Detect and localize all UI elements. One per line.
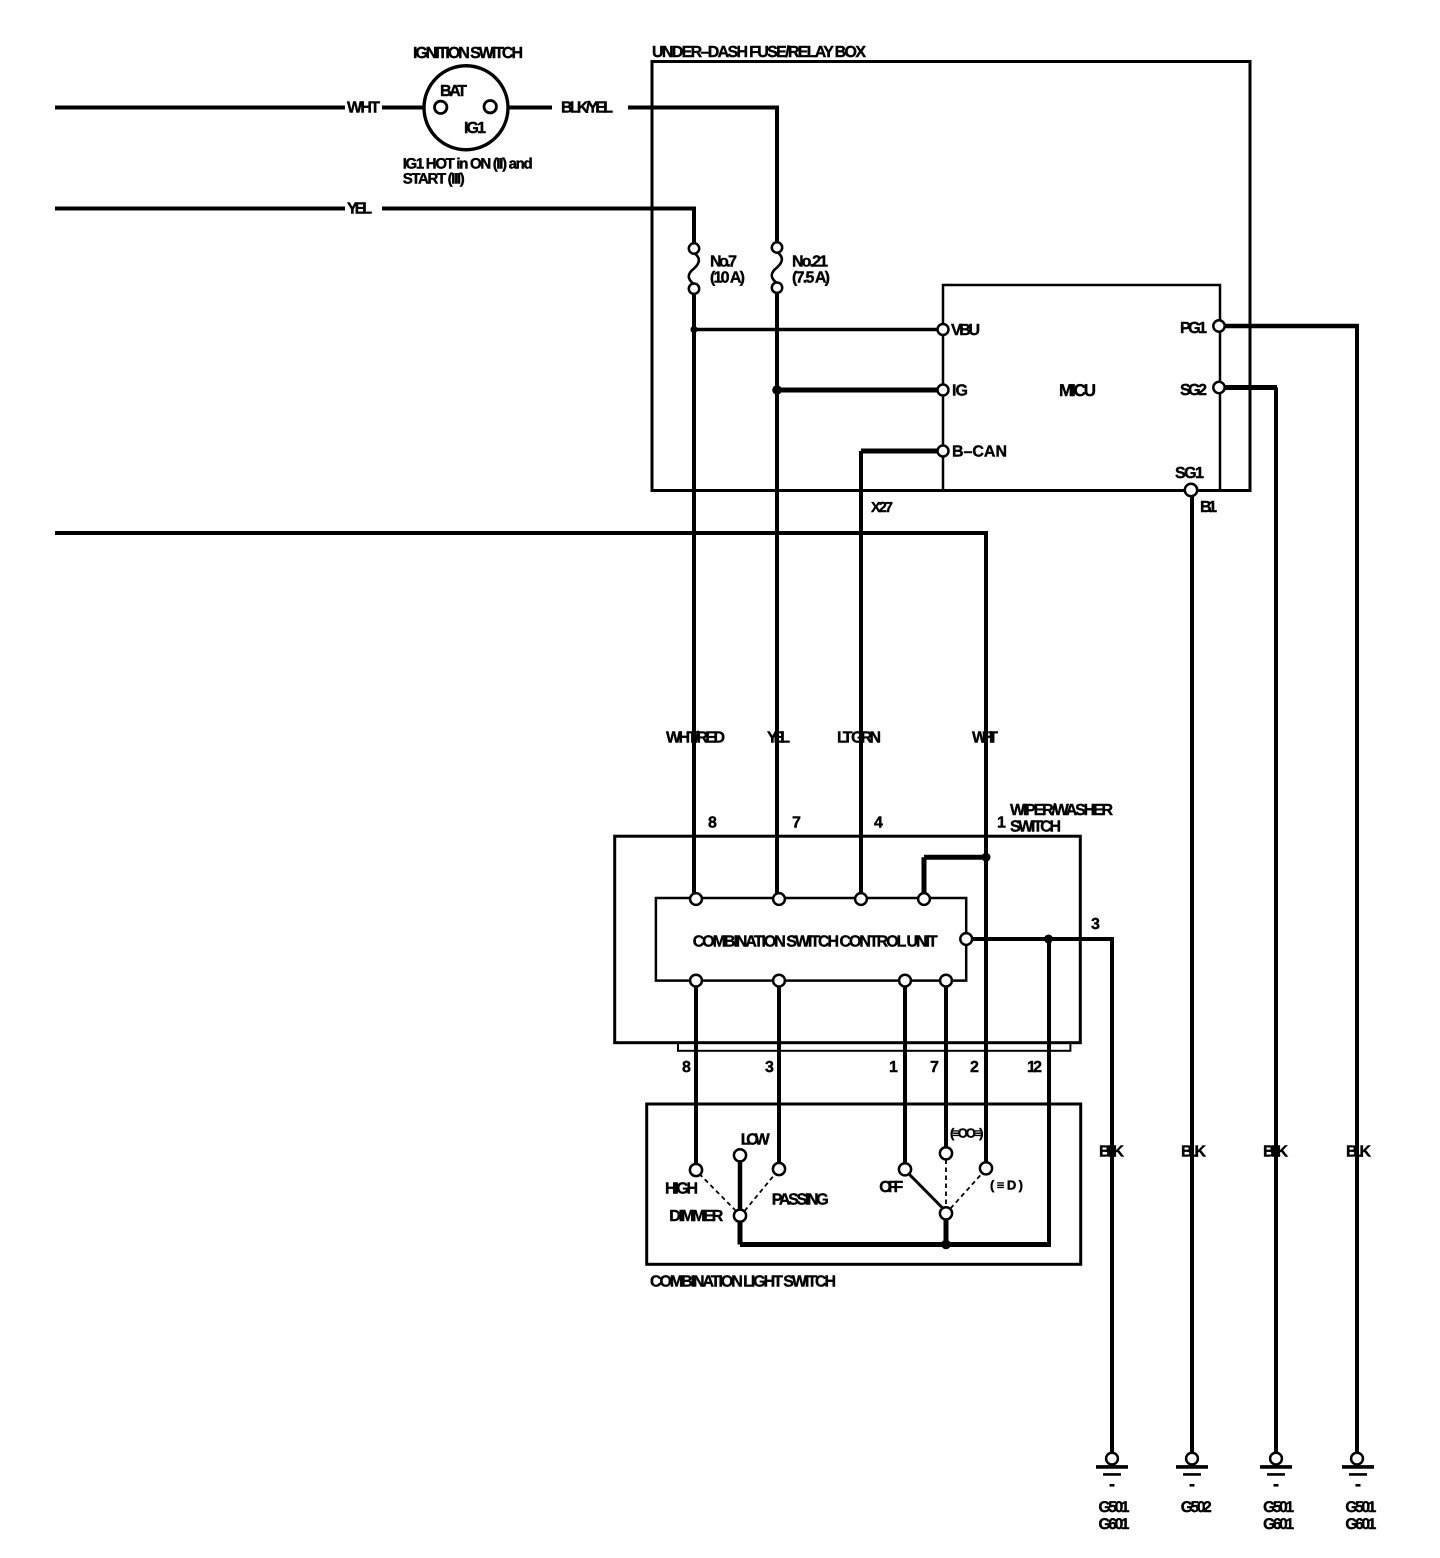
svg-text:PG1: PG1 [1180, 320, 1207, 337]
svg-text:(≡OO≡): (≡OO≡) [950, 1126, 984, 1141]
svg-text:WHT: WHT [972, 730, 998, 747]
svg-text:SWITCH: SWITCH [1010, 819, 1061, 836]
svg-text:BLK: BLK [1181, 1144, 1206, 1161]
svg-text:7: 7 [792, 815, 801, 832]
svg-text:SG1: SG1 [1175, 465, 1204, 482]
svg-text:YEL: YEL [767, 730, 790, 747]
svg-text:VBU: VBU [951, 322, 980, 339]
svg-text:8: 8 [708, 815, 717, 832]
svg-text:YEL: YEL [347, 201, 372, 218]
svg-text:12: 12 [1027, 1059, 1042, 1076]
svg-text:8: 8 [682, 1059, 691, 1076]
svg-text:IGNITION SWITCH: IGNITION SWITCH [413, 45, 523, 62]
svg-text:G601: G601 [1099, 1516, 1130, 1533]
svg-text:7: 7 [930, 1059, 939, 1076]
svg-text:PASSING: PASSING [772, 1191, 829, 1208]
svg-text:MICU: MICU [1059, 381, 1096, 400]
svg-text:BLK/YEL: BLK/YEL [561, 100, 613, 117]
svg-text:(7.5 A): (7.5 A) [792, 270, 830, 287]
svg-text:IG1: IG1 [464, 120, 486, 137]
svg-text:2: 2 [970, 1059, 979, 1076]
svg-text:G501: G501 [1345, 1499, 1376, 1516]
svg-text:LOW: LOW [741, 1131, 771, 1148]
svg-text:G501: G501 [1263, 1499, 1294, 1516]
svg-text:B1: B1 [1200, 499, 1217, 516]
svg-text:WHT: WHT [347, 100, 380, 117]
svg-text:X27: X27 [871, 500, 893, 516]
svg-text:IG: IG [952, 383, 968, 400]
svg-text:COMBINATION SWITCH CONTROL UNI: COMBINATION SWITCH CONTROL UNIT [693, 934, 938, 951]
svg-text:(≡D): (≡D) [990, 1178, 1023, 1193]
svg-text:BAT: BAT [440, 83, 467, 100]
svg-text:LT GRN: LT GRN [837, 730, 881, 747]
svg-text:No.7: No.7 [710, 254, 737, 271]
svg-text:DIMMER: DIMMER [669, 1208, 723, 1225]
svg-text:UNDER–DASH FUSE/RELAY BOX: UNDER–DASH FUSE/RELAY BOX [652, 44, 866, 61]
svg-text:G601: G601 [1263, 1516, 1294, 1533]
svg-text:G502: G502 [1181, 1499, 1212, 1516]
svg-text:BLK: BLK [1263, 1144, 1288, 1161]
svg-text:4: 4 [874, 815, 883, 832]
svg-text:1: 1 [997, 815, 1006, 832]
svg-text:WIPER/WASHER: WIPER/WASHER [1010, 802, 1113, 819]
svg-text:G501: G501 [1099, 1499, 1130, 1516]
svg-text:BLK: BLK [1346, 1144, 1371, 1161]
svg-text:HIGH: HIGH [665, 1181, 698, 1198]
svg-text:1: 1 [889, 1059, 898, 1076]
svg-text:START (III): START (III) [403, 171, 465, 188]
svg-text:COMBINATION LIGHT SWITCH: COMBINATION LIGHT SWITCH [650, 1274, 836, 1291]
svg-text:3: 3 [765, 1059, 774, 1076]
svg-text:OFF: OFF [879, 1179, 903, 1196]
svg-text:3: 3 [1091, 916, 1100, 933]
svg-text:No.21: No.21 [792, 254, 828, 271]
svg-text:BLK: BLK [1099, 1144, 1124, 1161]
svg-text:(10 A): (10 A) [710, 270, 745, 287]
svg-text:SG2: SG2 [1180, 382, 1207, 399]
svg-text:B–CAN: B–CAN [952, 444, 1007, 461]
svg-text:WHT/RED: WHT/RED [666, 730, 725, 747]
svg-text:G601: G601 [1345, 1516, 1376, 1533]
